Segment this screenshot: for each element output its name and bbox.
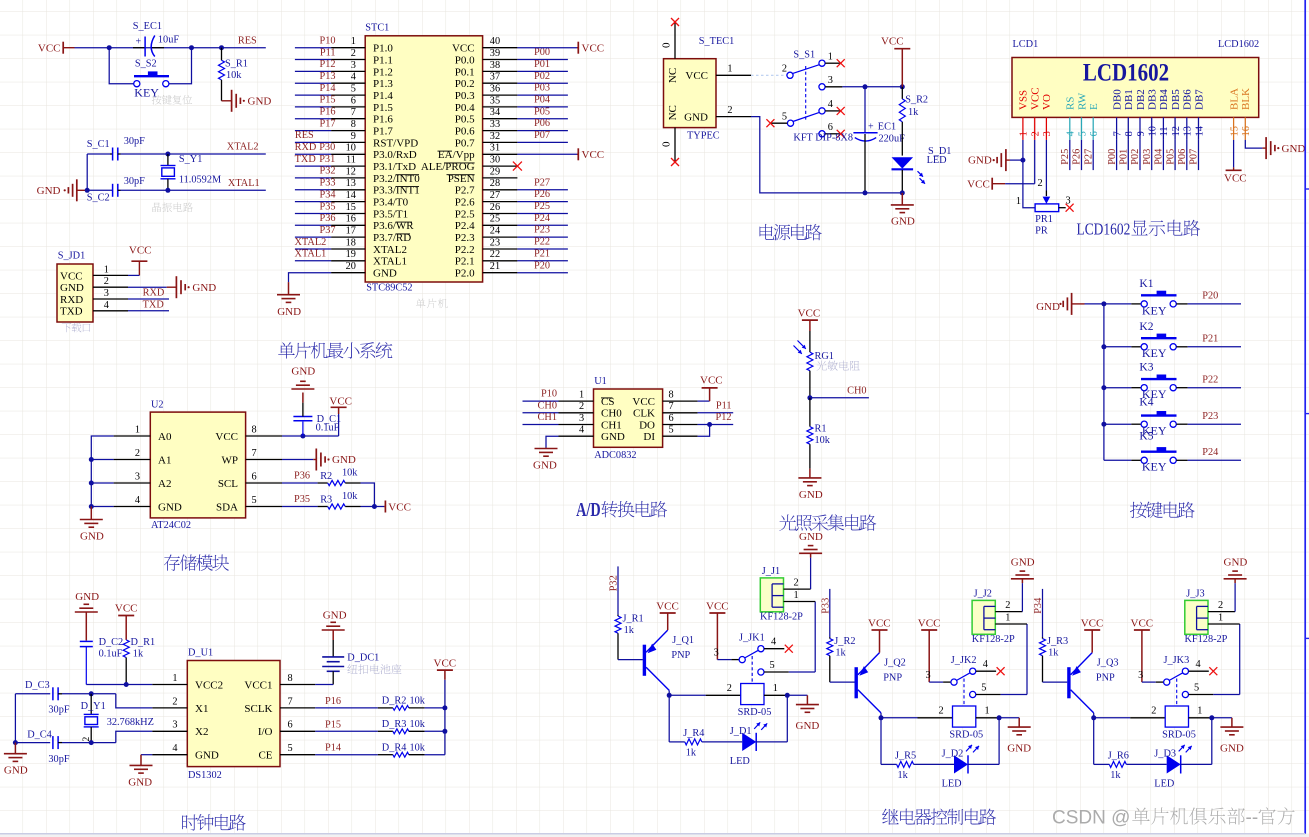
label 晶振电路 <box>152 202 193 212</box>
svg-text:SRD-05: SRD-05 <box>949 730 983 741</box>
svg-text:K3: K3 <box>1139 362 1153 374</box>
op-amp U1 ADC0832 <box>594 376 663 461</box>
capacitor D_C3 30pF <box>15 680 69 716</box>
svg-text:P20: P20 <box>534 260 550 271</box>
svg-text:P05: P05 <box>534 106 550 117</box>
potentiometer PR1 <box>1035 196 1074 237</box>
svg-text:BLK: BLK <box>1240 88 1252 110</box>
svg-text:PR1: PR1 <box>1035 214 1053 225</box>
svg-text:P3.4/T0: P3.4/T0 <box>373 197 409 209</box>
svg-text:CH1: CH1 <box>601 419 622 431</box>
svg-text:8: 8 <box>351 119 356 130</box>
svg-text:D_C3: D_C3 <box>25 680 50 691</box>
svg-text:GND: GND <box>75 591 99 603</box>
svg-text:VCC: VCC <box>129 245 152 257</box>
svg-text:5: 5 <box>981 682 986 693</box>
resistor D_R4 10k <box>378 743 426 758</box>
pin 1 (J_J2) <box>995 613 1027 625</box>
label 纽扣电池座 <box>347 664 401 674</box>
svg-text:P27: P27 <box>1083 149 1094 165</box>
op-amp U STC1 microcontroller STC89C52 <box>365 23 482 294</box>
crystal S_Y1 11.0592M <box>161 154 222 190</box>
svg-text:3: 3 <box>172 720 177 731</box>
wire P20 (key 1) <box>1188 291 1241 304</box>
svg-text:SRD-05: SRD-05 <box>1162 730 1196 741</box>
svg-text:10k: 10k <box>410 743 426 754</box>
svg-text:XTAL1: XTAL1 <box>228 178 260 189</box>
capacitor D_C2 0.1uF <box>80 637 123 685</box>
node rail LED <box>900 190 905 195</box>
resistor D_R1 1k <box>123 637 155 685</box>
svg-text:3: 3 <box>579 413 584 424</box>
resistor R3 10k <box>318 491 361 509</box>
svg-text:VCC: VCC <box>434 658 457 670</box>
svg-text:8: 8 <box>669 390 674 401</box>
svg-text:8: 8 <box>1124 131 1135 136</box>
pin 4 GND (D_U1) <box>152 743 219 762</box>
svg-text:14: 14 <box>1194 126 1205 136</box>
svg-text:S_S1: S_S1 <box>793 49 815 60</box>
svg-text:GND: GND <box>291 365 315 377</box>
svg-text:P22: P22 <box>1202 374 1218 385</box>
wire CH0 <box>523 400 559 412</box>
svg-text:KEY: KEY <box>1142 303 1167 317</box>
wire pin5 to connector <box>789 602 815 673</box>
title 存储模块 <box>164 554 229 570</box>
LED J_D1 <box>730 726 756 767</box>
svg-text:J_R5: J_R5 <box>895 751 916 762</box>
wire pin 28 right <box>517 177 568 189</box>
svg-text:XTAL2: XTAL2 <box>227 142 259 153</box>
svg-text:30pF: 30pF <box>48 754 69 765</box>
svg-text:P23: P23 <box>534 225 550 236</box>
pin 5 P1.4 (STC1) <box>331 84 393 103</box>
wire base <box>618 659 643 661</box>
node VSS gnd tap <box>1020 158 1025 163</box>
battery D_DC1 <box>322 640 379 685</box>
power port VCC (pullup rail) <box>434 658 457 680</box>
svg-text:7: 7 <box>669 401 674 412</box>
pin 1 VSS (LCD1) <box>1018 90 1030 140</box>
svg-text:P35: P35 <box>319 201 335 212</box>
label 按键复位 <box>152 95 192 105</box>
svg-text:2: 2 <box>104 276 109 287</box>
wire P01 (LCD pin 8) <box>1119 140 1130 170</box>
pin NC top (rotated) <box>667 68 679 83</box>
svg-text:VCC: VCC <box>115 603 138 615</box>
wire pin 7 left <box>295 107 336 119</box>
svg-text:1k: 1k <box>624 625 635 636</box>
pin 7 P1.6 (STC1) <box>331 107 393 126</box>
svg-text:2: 2 <box>1005 600 1010 611</box>
ground GND (D_U1) <box>128 755 152 789</box>
wire pullup rail <box>444 680 446 755</box>
svg-text:GND: GND <box>601 431 625 443</box>
ground GND (LCD VSS) <box>968 149 1023 171</box>
node key row 4 <box>1101 422 1106 427</box>
pin 7 CLK (U1) <box>633 401 698 420</box>
label 下载口 <box>62 323 91 333</box>
svg-text:P1.7: P1.7 <box>373 126 393 138</box>
wire RES net <box>75 47 266 49</box>
svg-text:P16: P16 <box>319 107 335 118</box>
node EC1 top <box>863 84 868 89</box>
svg-text:D_R2: D_R2 <box>382 696 407 707</box>
crystal D_Y1 32.768kHZ <box>81 694 154 743</box>
wire BLA to VCC <box>1233 140 1235 168</box>
power port VCC (J_JK1) <box>706 600 729 659</box>
svg-text:J_J1: J_J1 <box>762 566 780 577</box>
svg-text:VCC: VCC <box>868 617 891 629</box>
svg-text:LCD1602: LCD1602 <box>1077 220 1131 239</box>
svg-text:S_Y1: S_Y1 <box>179 154 202 165</box>
wire pin 32 right <box>517 130 568 142</box>
pin 8 VCC (U1) <box>632 390 697 409</box>
svg-text:P0.3: P0.3 <box>455 90 475 102</box>
sheet border right <box>1305 0 1309 834</box>
svg-text:3: 3 <box>925 670 930 681</box>
svg-text:PNP: PNP <box>883 672 902 683</box>
wire pin 2 left <box>295 47 336 59</box>
wire pin 23 right <box>517 237 568 249</box>
svg-text:P14: P14 <box>319 83 335 94</box>
pin 4 GND (U1) <box>559 425 625 444</box>
svg-text:10k: 10k <box>226 70 242 81</box>
svg-text:GND: GND <box>4 765 28 777</box>
pin 15 BLA (LCD1) <box>1228 88 1240 140</box>
svg-text:K2: K2 <box>1139 321 1153 333</box>
svg-text:R1: R1 <box>815 423 827 434</box>
node crystal bottom <box>165 188 170 193</box>
svg-text:TXD: TXD <box>143 300 165 311</box>
svg-text:37: 37 <box>490 72 500 83</box>
svg-text:GND: GND <box>1036 301 1060 313</box>
wire pin8 VCC <box>282 435 339 437</box>
no-ERC mark pin30 <box>513 162 522 171</box>
pin 6 SCL (U2) <box>218 471 282 490</box>
svg-text:X2: X2 <box>195 726 208 738</box>
svg-text:P1.4: P1.4 <box>373 90 393 102</box>
node pullup rail 2 <box>442 729 447 734</box>
wire pin 33 right <box>517 118 568 130</box>
svg-text:VSS: VSS <box>1018 90 1030 110</box>
pin 3 A2 (U2) <box>114 471 172 490</box>
pin 3 VO (LCD1) <box>1041 94 1053 140</box>
net label P34 (rotated) <box>1033 598 1044 614</box>
svg-text:R2: R2 <box>320 471 332 482</box>
pin 38 P0.1 (STC1) <box>455 60 518 79</box>
power port VCC (emitter J_Q2) <box>868 617 891 652</box>
svg-text:1: 1 <box>1019 131 1030 136</box>
svg-text:GND: GND <box>373 268 397 280</box>
pin 1 P1.0 (STC1) <box>331 36 393 55</box>
pin 16 P3.6/WR (STC1) <box>331 214 414 233</box>
svg-text:P2.2: P2.2 <box>455 244 475 256</box>
wire coil right <box>976 706 999 718</box>
wire pin 22 right <box>517 248 568 260</box>
pin 5 DI (U1) <box>643 425 697 444</box>
svg-text:J_JK1: J_JK1 <box>739 633 765 644</box>
svg-text:P0.7: P0.7 <box>455 137 475 149</box>
wire P27 (LCD pin 6) <box>1083 140 1094 170</box>
svg-text:3: 3 <box>1042 131 1053 136</box>
svg-text:P2.5: P2.5 <box>455 208 475 220</box>
svg-text:RXD: RXD <box>60 294 83 306</box>
wire P07 (LCD pin 14) <box>1189 140 1200 170</box>
svg-text:+: + <box>868 121 874 132</box>
svg-text:P3.0/RxD: P3.0/RxD <box>373 149 417 161</box>
pin 6 P1.5 (STC1) <box>331 95 393 114</box>
pin 12 DB5 (LCD1) <box>1170 89 1182 140</box>
svg-text:D_Y1: D_Y1 <box>81 701 106 712</box>
wire TXD <box>128 300 169 311</box>
power port VCC (emitter J_Q1) <box>656 600 679 630</box>
pin 34 P0.5 (STC1) <box>455 107 518 126</box>
svg-text:GND: GND <box>332 454 356 466</box>
svg-text:D_R4: D_R4 <box>382 743 407 754</box>
svg-text:4: 4 <box>351 72 356 83</box>
svg-text:7: 7 <box>252 448 257 459</box>
ground GND (backlight) <box>1262 137 1305 159</box>
wire pin 1 left <box>295 36 336 48</box>
svg-text:VCC: VCC <box>38 43 61 55</box>
svg-text:GND: GND <box>684 112 708 124</box>
svg-text:1k: 1k <box>686 748 697 759</box>
svg-text:P2.1: P2.1 <box>455 256 475 268</box>
svg-text:3: 3 <box>714 647 719 658</box>
svg-text:1: 1 <box>1005 613 1010 624</box>
title 单片机最小系统 <box>278 342 392 359</box>
svg-text:GND: GND <box>533 459 557 471</box>
node A2 <box>89 481 94 486</box>
svg-text:P1.0: P1.0 <box>373 43 393 55</box>
wire collector down <box>880 713 882 718</box>
svg-text:P25: P25 <box>534 201 550 212</box>
wire pin 6 left <box>295 95 336 107</box>
svg-text:P04: P04 <box>534 95 550 106</box>
LED S_D1 <box>892 146 952 193</box>
svg-text:XTAL1: XTAL1 <box>295 249 327 260</box>
node SDA pullup <box>372 504 377 509</box>
svg-text:S_C2: S_C2 <box>87 193 110 204</box>
connector S_TEC1 TYPEC <box>664 36 735 142</box>
svg-text:K4: K4 <box>1139 397 1153 409</box>
wire pin 3 left <box>295 59 336 71</box>
svg-text:11: 11 <box>1159 126 1170 136</box>
node coil right <box>785 693 790 698</box>
svg-text:1k: 1k <box>1110 770 1121 781</box>
svg-text:P10: P10 <box>541 389 557 400</box>
svg-text:KFT DIP-8X8: KFT DIP-8X8 <box>793 132 853 143</box>
pin 11 DB4 (LCD1) <box>1158 89 1170 140</box>
svg-text:PR: PR <box>1035 226 1048 237</box>
pin 32 P0.7 (STC1) <box>455 131 518 150</box>
ground GND (WP) <box>313 449 356 471</box>
svg-text:20: 20 <box>346 261 356 272</box>
svg-text:P26: P26 <box>534 189 550 200</box>
pin 14 DB7 (LCD1) <box>1193 89 1205 140</box>
svg-text:S_R2: S_R2 <box>905 95 928 106</box>
svg-text:4: 4 <box>135 495 140 506</box>
svg-text:19: 19 <box>346 249 356 260</box>
svg-text:DO: DO <box>639 419 655 431</box>
net label RES (pin9) <box>295 130 314 141</box>
svg-text:VCC: VCC <box>685 70 708 82</box>
svg-text:VCC: VCC <box>1224 173 1247 185</box>
svg-text:10k: 10k <box>342 468 358 479</box>
svg-text:4: 4 <box>579 425 584 436</box>
svg-text:4: 4 <box>771 637 776 648</box>
capacitor EC1 220uF <box>853 87 905 193</box>
svg-text:15: 15 <box>346 202 356 213</box>
svg-text:P07: P07 <box>534 130 550 141</box>
svg-text:22: 22 <box>490 249 500 260</box>
ground GND (U2) <box>80 507 104 543</box>
svg-text:GND: GND <box>799 489 823 501</box>
capacitor S_EC1 10uF <box>133 21 180 57</box>
svg-text:1k: 1k <box>133 648 144 659</box>
svg-text:VO: VO <box>1041 94 1053 110</box>
wire VO to potentiometer <box>1038 140 1047 196</box>
wire pullup 3 <box>425 754 445 756</box>
svg-text:EC1: EC1 <box>878 121 896 132</box>
svg-text:WP: WP <box>222 454 239 466</box>
svg-text:P21: P21 <box>534 248 550 259</box>
title A/D转换电路 <box>576 499 667 521</box>
pin 36 P0.3 (STC1) <box>455 84 518 103</box>
pin 5 SDA (U2) <box>216 495 282 514</box>
svg-text:18: 18 <box>346 237 356 248</box>
capacitor D_C4 30pF <box>15 729 69 765</box>
node junction mid <box>189 45 194 50</box>
power port VCC (reset) <box>38 42 75 55</box>
pin 26 P2.5 (STC1) <box>455 202 518 221</box>
node VCC rail <box>900 84 905 89</box>
svg-text:P01: P01 <box>534 59 550 70</box>
title 光照采集电路 <box>779 514 876 531</box>
svg-text:2: 2 <box>135 448 140 459</box>
wire pin 24 right <box>517 225 568 237</box>
power port VCC (LCD) <box>967 178 1005 191</box>
svg-text:9: 9 <box>351 131 356 142</box>
wire X2 <box>62 731 152 742</box>
relay coil J_JK2 SRD-05 <box>949 706 983 752</box>
pin 28 P2.7 (STC1) <box>455 178 518 197</box>
svg-text:2: 2 <box>794 577 799 588</box>
svg-text:VCC: VCC <box>60 270 83 282</box>
pin 11 P3.1/TxD (STC1) <box>331 155 416 174</box>
pin 9 DB2 (LCD1) <box>1135 89 1147 140</box>
ground GND (keys) <box>1036 293 1084 315</box>
svg-text:27: 27 <box>490 190 500 201</box>
svg-text:2: 2 <box>1218 600 1223 611</box>
svg-text:SCLK: SCLK <box>244 703 272 715</box>
wire pin 27 right <box>517 189 568 201</box>
svg-text:GND: GND <box>60 282 84 294</box>
svg-text:32.768kHZ: 32.768kHZ <box>107 717 154 728</box>
svg-text:10: 10 <box>346 143 356 154</box>
pin 4 GND (U2) <box>114 495 182 514</box>
node gnd bus <box>13 740 18 745</box>
title 按键电路 <box>1130 502 1195 519</box>
wire P04 (LCD pin 11) <box>1154 140 1165 170</box>
ground GND (coil) <box>1212 718 1244 755</box>
switch J_JK3 <box>1138 655 1217 706</box>
ground GND (S_R1) <box>222 90 272 112</box>
svg-text:30pF: 30pF <box>124 136 145 147</box>
pin 30 ALE/PROG (STC1) <box>421 155 518 174</box>
svg-text:CH0: CH0 <box>601 408 622 420</box>
svg-text:P0.6: P0.6 <box>455 126 475 138</box>
wire coil right <box>764 683 787 695</box>
node collector <box>667 693 672 698</box>
svg-text:LED: LED <box>1154 779 1175 790</box>
svg-text:1: 1 <box>828 52 833 63</box>
svg-text:DB3: DB3 <box>1147 89 1159 110</box>
wire RXD <box>128 288 169 299</box>
title LCD1602显示电路 <box>1077 220 1201 239</box>
svg-text:RW: RW <box>1076 92 1088 110</box>
svg-text:P30: P30 <box>319 142 335 153</box>
svg-text:VCC: VCC <box>632 396 655 408</box>
svg-text:J_D1: J_D1 <box>730 726 752 737</box>
wire CH0 <box>810 386 869 398</box>
wire VCC2 <box>86 684 152 686</box>
svg-text:1: 1 <box>104 264 109 275</box>
svg-text:LCD1: LCD1 <box>1013 39 1039 50</box>
svg-text:5: 5 <box>1077 131 1088 136</box>
svg-text:GND: GND <box>1282 143 1306 155</box>
pin 2 GND (S_JD1) <box>60 276 128 294</box>
wire cap gnd bus <box>14 694 16 743</box>
resistor S_R2 1k <box>899 87 928 156</box>
svg-text:1: 1 <box>773 683 778 694</box>
wire DI tie <box>698 425 710 437</box>
switch S_S2 KEY <box>134 58 169 99</box>
svg-text:5: 5 <box>782 112 787 123</box>
wire P10 (CS) <box>523 389 559 401</box>
switch J_JK1 <box>714 633 793 684</box>
svg-text:RS: RS <box>1065 97 1077 110</box>
wire pin 21 right <box>517 260 568 272</box>
svg-text:P1.2: P1.2 <box>373 66 393 78</box>
svg-text:P21: P21 <box>1202 334 1218 345</box>
ground GND (D_C2) <box>75 591 99 640</box>
svg-text:J_Q3: J_Q3 <box>1097 658 1119 669</box>
svg-text:P00: P00 <box>1107 149 1118 165</box>
svg-text:1: 1 <box>351 36 356 47</box>
svg-text:2: 2 <box>351 48 356 59</box>
svg-text:VCC: VCC <box>582 149 605 161</box>
wire pin7 WP to GND <box>282 459 313 461</box>
wire switch branch left <box>109 48 133 84</box>
svg-text:D_C2: D_C2 <box>99 637 124 648</box>
svg-text:RES: RES <box>295 130 314 141</box>
svg-text:25: 25 <box>490 214 500 225</box>
pin 37 P0.2 (STC1) <box>455 72 518 91</box>
pin 18 XTAL2 (STC1) <box>331 237 407 256</box>
svg-text:P05: P05 <box>1165 149 1176 165</box>
svg-text:GND: GND <box>1011 557 1035 569</box>
svg-text:P02: P02 <box>534 71 550 82</box>
switch J_JK2 <box>925 655 1004 706</box>
svg-text:P02: P02 <box>1130 149 1141 165</box>
svg-text:P00: P00 <box>534 47 550 58</box>
svg-text:4: 4 <box>1066 131 1077 136</box>
svg-text:VCC: VCC <box>656 600 679 612</box>
wire pin2 to GND <box>1021 583 1023 612</box>
svg-text:6: 6 <box>288 720 293 731</box>
